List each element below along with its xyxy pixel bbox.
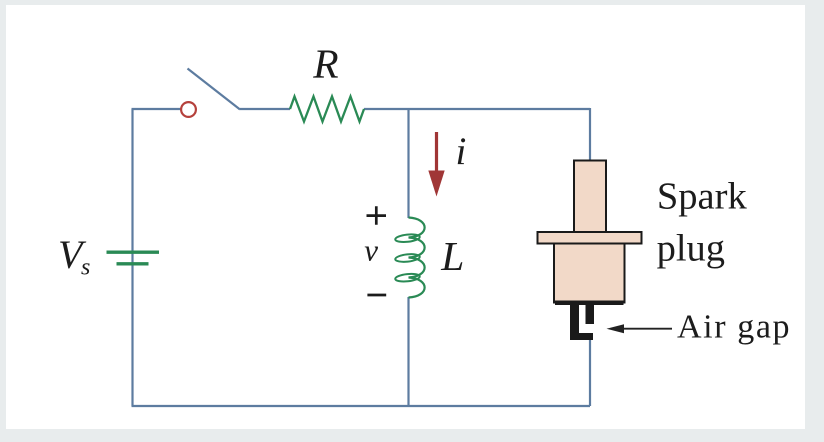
label i: [456, 130, 467, 173]
wire bottom: [132, 405, 591, 407]
wire left vertical: [131, 109, 133, 406]
svg-text:L: L: [440, 233, 464, 279]
wire right vertical upper (to spark plug terminal): [589, 108, 591, 161]
label Air gap: [677, 309, 791, 346]
spark plug center electrode: [586, 302, 595, 324]
wire resistor to right corner: [364, 108, 590, 110]
battery Vs short plate: [117, 262, 149, 265]
wire switch hinge to resistor: [240, 108, 290, 110]
spark plug body: [554, 244, 625, 306]
switch lever: [188, 69, 241, 110]
switch contact circle: [181, 102, 196, 117]
svg-text:Spark: Spark: [657, 176, 748, 218]
resistor R zigzag: [290, 97, 364, 122]
wire inductor branch upper: [407, 109, 409, 218]
spark plug terminal: [574, 161, 606, 233]
wire right vertical lower (below spark plug): [589, 338, 591, 406]
label R: [312, 41, 338, 87]
label v: [364, 233, 378, 268]
battery Vs long plate: [107, 250, 160, 253]
svg-text:i: i: [456, 130, 467, 173]
svg-text:v: v: [364, 233, 378, 268]
air gap arrow: [607, 324, 673, 333]
current arrow i: [428, 132, 444, 197]
label L: [440, 233, 464, 279]
label Spark plug: [657, 176, 748, 270]
wire inductor branch lower: [407, 297, 409, 406]
label minus: [367, 294, 386, 297]
svg-text:plug: plug: [657, 228, 725, 270]
svg-text:R: R: [312, 41, 338, 87]
svg-text:Air gap: Air gap: [677, 309, 791, 346]
label plus: [367, 206, 387, 224]
spark plug ground electrode (L-shape): [570, 302, 593, 340]
wire top-left segment to switch contact: [132, 108, 182, 110]
label Vs: [58, 232, 90, 281]
inductor L coil: [395, 218, 425, 298]
spark plug flange: [538, 232, 642, 244]
